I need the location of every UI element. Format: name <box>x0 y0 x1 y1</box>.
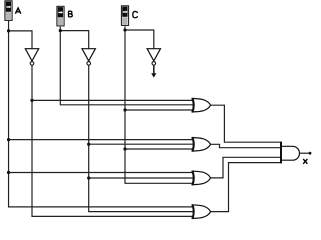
wire C branch to inverter <box>125 30 154 49</box>
wire A' to gate1 in1 <box>32 99 196 101</box>
wire C to gate1 in3 <box>125 109 196 111</box>
wire B' rail <box>89 65 196 211</box>
or-gate G2 <box>192 137 210 152</box>
wire A branch to inverter <box>9 31 32 49</box>
inverter U3 (input C) <box>147 49 160 66</box>
wire C vertical rail <box>125 26 196 183</box>
node A'-gate1 junction <box>30 99 33 102</box>
wire C to gate2 in3 <box>125 148 196 150</box>
node B junction <box>59 29 62 32</box>
wire A to gate3 in1 <box>9 172 196 174</box>
wire A vertical rail <box>9 21 196 207</box>
wire C' dangling stub with arrow <box>151 65 156 77</box>
node C-gate2 junction <box>123 147 126 150</box>
node A-gate3 junction <box>7 171 10 174</box>
label B <box>68 11 72 17</box>
node B'-gate2 junction <box>87 143 90 146</box>
inverter U1 (input A) <box>25 49 38 66</box>
node C junction <box>123 28 126 31</box>
node B'-gate3 junction <box>87 176 90 179</box>
label A <box>15 8 21 14</box>
node A junction <box>7 29 10 32</box>
wire gate3 output to OR <box>210 157 281 178</box>
switch input A <box>5 1 12 21</box>
node output terminal <box>309 152 312 155</box>
switch input B <box>57 6 64 26</box>
or-gate G4 <box>192 204 210 219</box>
wire A' rail <box>32 65 196 216</box>
wire A to gate2 in1 <box>9 139 196 141</box>
wire B' to gate3 in2 <box>89 177 196 179</box>
wire output X <box>300 152 310 154</box>
and-gate G5 (output stage) <box>281 142 299 164</box>
label X <box>303 159 307 164</box>
switch input C <box>121 6 128 26</box>
wire B branch to inverter <box>60 31 88 49</box>
wire B vertical rail <box>60 27 196 105</box>
wire gate2 output to OR <box>210 144 281 147</box>
node A-gate2 junction <box>7 138 10 141</box>
inverter U2 (input B) <box>82 49 95 66</box>
wire gate4 output to OR <box>210 163 281 212</box>
node C-gate1 junction <box>123 108 126 111</box>
wire gate1 output to OR <box>210 105 281 142</box>
label C <box>133 11 138 17</box>
or-gate G3 <box>192 171 210 186</box>
or-gate G1 <box>192 98 210 113</box>
wire B' to gate2 in2 <box>89 143 196 145</box>
